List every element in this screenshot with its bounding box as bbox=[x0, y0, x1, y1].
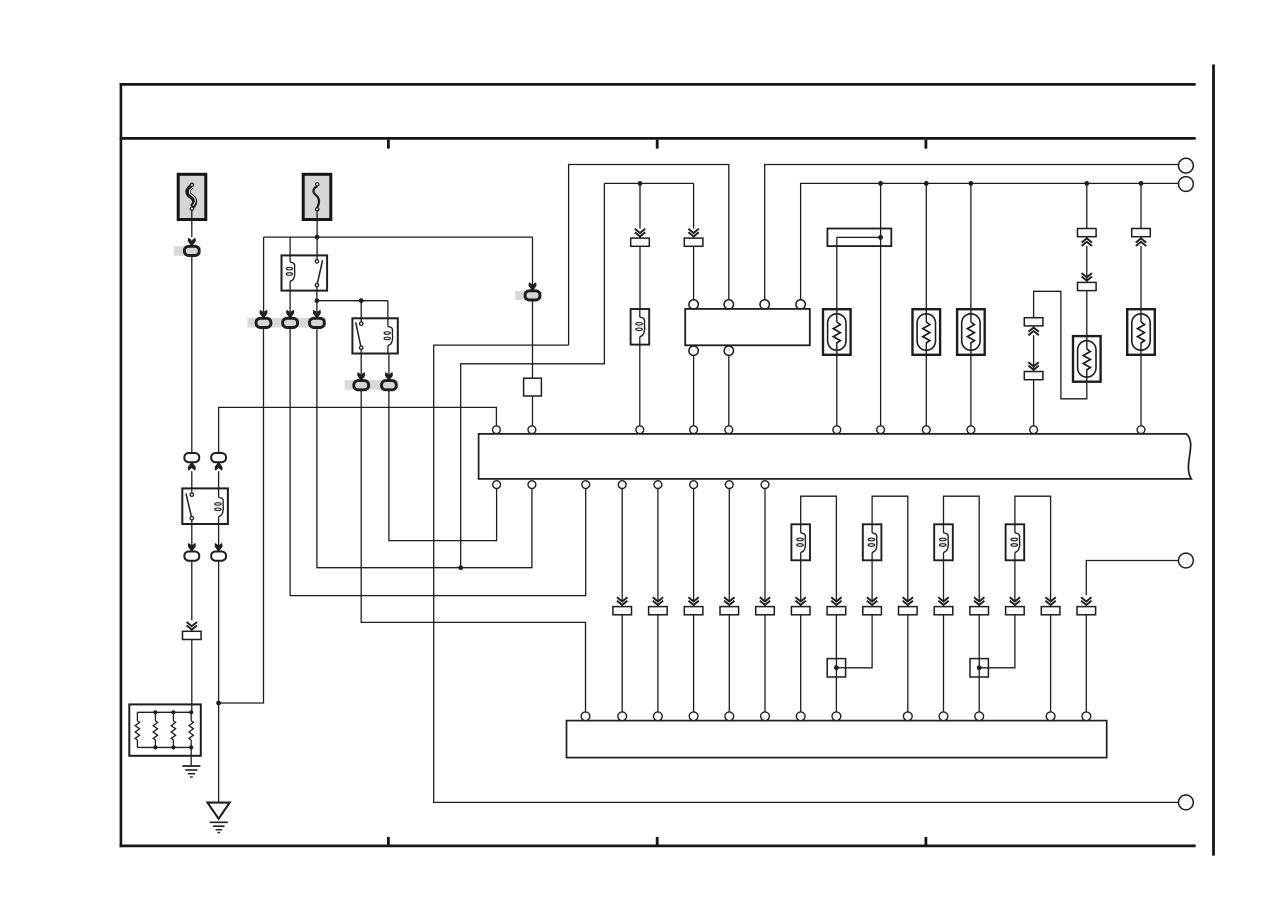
noise filter coil box bbox=[631, 309, 650, 345]
relay R2 coil bbox=[384, 327, 393, 346]
light control rheostat box bbox=[827, 229, 891, 247]
ECU bar bottom pin 2 bbox=[528, 481, 536, 489]
wire to lamp L2 bbox=[925, 183, 927, 309]
junction node at (880.6,183) bbox=[878, 181, 883, 186]
wire H1 to H2 bbox=[1086, 246, 1088, 283]
junction node at (460.7,567.7) bbox=[458, 565, 463, 570]
wire N at 800.7 to lower ECU bbox=[800, 615, 802, 713]
wire G2 to receiver bbox=[693, 246, 695, 299]
ECU bar bottom pin 7 bbox=[725, 481, 733, 489]
highlight band at connector A2 bbox=[515, 291, 542, 300]
wire to relay R3 coil from node y=407 bbox=[219, 407, 497, 452]
connector N12 (shielded pair) bbox=[1010, 601, 1020, 605]
wire to lamp L3 bbox=[970, 183, 972, 309]
connector N7 (shielded pair) bbox=[831, 601, 841, 605]
connector N2 (shielded pair) bbox=[653, 601, 663, 605]
wire H2 to lamp L4 bbox=[1086, 291, 1088, 337]
page edge rule right bbox=[1212, 65, 1215, 856]
ECU bar bottom pin 3 bbox=[582, 481, 590, 489]
wire to light control rheostat bbox=[880, 183, 882, 228]
wire bus y=237 bbox=[264, 236, 533, 238]
wire lamp L2 to ECU bbox=[925, 355, 927, 426]
wire to connector M1 bbox=[1140, 183, 1142, 228]
tick mark bottom 3 bbox=[925, 837, 928, 845]
ECU bar bottom pin 4 bbox=[618, 481, 626, 489]
wire motor 3 upper lead loop bbox=[944, 496, 980, 601]
wire N13 to lower ECU bbox=[1050, 615, 1052, 713]
tick mark top 3 bbox=[925, 140, 928, 149]
wire B2 to ECU main connector bbox=[290, 328, 586, 596]
wire run top-left segment A bbox=[569, 165, 729, 346]
fuse F1 (fusible link) box bbox=[178, 174, 206, 219]
lower ECU junction bar bbox=[567, 721, 1107, 758]
connector K1 (facing pair upper) bbox=[1024, 318, 1043, 326]
wire F1 to resistor pack bbox=[191, 640, 193, 713]
arrow up into connector D1 bbox=[188, 462, 195, 470]
wire N at 693.6 to lower ECU bbox=[693, 615, 695, 713]
arrow up into connector D2 bbox=[215, 462, 222, 470]
wire to connector H1 bbox=[1086, 183, 1088, 228]
relay R1 switch bbox=[315, 260, 318, 263]
lamp L3 bbox=[957, 309, 985, 355]
junction node at (317,237) bbox=[315, 235, 320, 240]
receiver terminal c bbox=[760, 300, 769, 309]
ECU bar top pin 8 bbox=[922, 426, 930, 434]
chassis ground symbol (resistor pack) bbox=[182, 765, 200, 767]
receiver terminal d bbox=[796, 300, 805, 309]
junction node at (218.6,703) bbox=[216, 701, 221, 706]
connector D2 oval (white) bbox=[211, 453, 226, 462]
wire bottom pin5 down bbox=[657, 489, 659, 602]
ECU bar top pin 11 bbox=[1137, 426, 1145, 434]
ECU bar bottom pin 8 bbox=[761, 481, 769, 489]
wire E2 down to ground bbox=[218, 561, 220, 803]
junction node at (1141,183) bbox=[1139, 181, 1144, 186]
wire rheostat tap to lamp L1 bbox=[836, 237, 838, 309]
connector M1 (shielded pair) bbox=[1132, 229, 1151, 237]
wire K2 to ECU bbox=[1033, 380, 1035, 426]
connector N4 (shielded pair) bbox=[724, 601, 734, 605]
wire relay R3 coil to connector E2 bbox=[218, 517, 220, 547]
connector B1 oval bbox=[256, 318, 271, 327]
receiver terminal b bbox=[724, 300, 733, 309]
wire N at 622.2 to lower ECU bbox=[621, 615, 623, 713]
connector N3 (shielded pair) bbox=[688, 601, 698, 605]
ECU bar top pin 2 bbox=[528, 426, 536, 434]
wire branch connector G1 bbox=[639, 183, 641, 228]
arrow into connector B1 bbox=[260, 310, 267, 318]
connector C2 oval bbox=[382, 381, 397, 390]
ECU bar bottom pin 6 bbox=[690, 481, 698, 489]
wire coil to ECU connector bbox=[639, 345, 641, 426]
connector N6 (shielded pair) bbox=[796, 601, 806, 605]
connector N11 (shielded pair) bbox=[974, 601, 984, 605]
border frame top rule bbox=[120, 83, 1196, 86]
lower ECU pin 13 bbox=[1082, 712, 1091, 721]
receiver terminal a bbox=[689, 300, 698, 309]
lower ECU pin 7 bbox=[796, 712, 805, 721]
wire K1 to K2 bbox=[1033, 335, 1035, 371]
wire M1 to lamp L5 bbox=[1140, 246, 1142, 309]
relay R3 switch bbox=[190, 493, 193, 496]
ECU bar top pin 3 bbox=[636, 426, 644, 434]
wire N at 765.0 to lower ECU bbox=[764, 615, 766, 713]
connector G2 (shielded pair) bbox=[688, 232, 698, 236]
lamp L4 bbox=[1073, 336, 1101, 382]
main ECU junction bar bbox=[479, 434, 1192, 479]
border frame header rule bbox=[120, 137, 1196, 140]
wire B3 to ECU main connector bbox=[317, 328, 532, 568]
wire N7 through splice S1 bbox=[835, 615, 837, 713]
wire relay R2 switch to connector C1 bbox=[360, 349, 362, 374]
wire lamp L3 to ECU bbox=[970, 355, 972, 426]
ECU bar top pin 7 bbox=[877, 426, 885, 434]
lower ECU pin 12 bbox=[1046, 712, 1055, 721]
connector H2 (facing pair lower) bbox=[1082, 277, 1092, 281]
arrow into connector B2 bbox=[287, 310, 294, 318]
connector H1 (facing pair upper) bbox=[1078, 229, 1097, 237]
lamp L5 bbox=[1127, 309, 1155, 355]
wire branch to relay R2 coil bbox=[387, 301, 389, 327]
connector A2 oval bbox=[525, 291, 540, 300]
wire run to rear terminal bbox=[434, 345, 1179, 802]
receiver terminal f bbox=[724, 346, 733, 355]
arrow into connector E2 bbox=[215, 544, 222, 552]
highlight band at connector A1 bbox=[174, 246, 201, 255]
wire connector A2 to junction block J1 bbox=[532, 300, 534, 378]
wire N11 through splice S2 bbox=[978, 615, 980, 713]
tick mark bottom 1 bbox=[387, 837, 390, 845]
tick mark top 2 bbox=[656, 140, 659, 149]
relay R3 box bbox=[182, 488, 228, 524]
wire motor 1 lower lead bbox=[800, 560, 802, 601]
relay R1 coil bbox=[286, 262, 295, 281]
connector B2 oval bbox=[283, 318, 298, 327]
junction node at (317,301) bbox=[315, 298, 320, 303]
wire branch to relay R2 switch bbox=[360, 301, 362, 322]
junction node at (361,301) bbox=[359, 298, 364, 303]
relay R2 switch bbox=[360, 322, 363, 325]
ECU bar bottom pin 5 bbox=[654, 481, 662, 489]
receiver terminal e bbox=[689, 346, 698, 355]
ECU bar top pin 9 bbox=[967, 426, 975, 434]
connector N5 (shielded pair) bbox=[760, 601, 770, 605]
relay R2 box bbox=[352, 318, 397, 353]
connector N8 (shielded pair) bbox=[867, 601, 877, 605]
fuse F2 box bbox=[303, 174, 331, 219]
wire fuse F1 to connector bbox=[191, 210, 193, 237]
connector E1 oval (white) bbox=[184, 552, 199, 561]
terminal ring T2 bbox=[1179, 177, 1194, 192]
junction node at (640,183) bbox=[638, 181, 643, 186]
connector A1 oval bbox=[184, 246, 199, 255]
wire bottom pin7 down bbox=[728, 489, 730, 602]
arrow into connector C2 bbox=[385, 373, 392, 381]
wire top feed B bbox=[765, 165, 1179, 301]
arrow into connector A2 bbox=[529, 283, 536, 291]
ECU bar top pin 6 bbox=[833, 426, 841, 434]
ECU bar bottom pin 1 bbox=[493, 481, 501, 489]
wire relay R3 switch to connector E1 bbox=[191, 520, 193, 546]
door lock motor coil 2 bbox=[863, 524, 882, 560]
wire motor 1 upper lead loop bbox=[801, 496, 837, 601]
wire receiver f to ECU bbox=[728, 355, 730, 426]
ECU bar top pin 10 bbox=[1030, 426, 1038, 434]
wire motor 2 lower lead bbox=[871, 560, 873, 601]
wire run top segment C bbox=[604, 182, 693, 184]
wire N at 657.9 to lower ECU bbox=[657, 615, 659, 713]
lower ECU pin 11 bbox=[975, 712, 984, 721]
ECU bar top pin 1 bbox=[493, 426, 501, 434]
junction node at (926.3,183) bbox=[924, 181, 929, 186]
arrow into connector C1 bbox=[358, 373, 365, 381]
wire G1 to noise filter coil bbox=[639, 246, 641, 309]
connector D1 oval (white) bbox=[184, 453, 199, 462]
door lock motor coil 1 bbox=[791, 524, 810, 560]
wire terminal T3 to connector N14 bbox=[1086, 561, 1178, 596]
tick mark bottom 2 bbox=[656, 837, 659, 845]
wire N8 into splice S1 bbox=[846, 615, 873, 668]
connector B3 oval bbox=[310, 318, 325, 327]
wire D2 to relay R3 bbox=[218, 471, 220, 497]
connector E2 oval (white) bbox=[211, 552, 226, 561]
junction node at (970.9,183) bbox=[969, 181, 974, 186]
connector N10 (shielded pair) bbox=[938, 601, 948, 605]
splice box S1 bbox=[827, 659, 845, 677]
wire relay R2 coil to connector C2 bbox=[388, 354, 390, 375]
wire N12 into splice S2 bbox=[979, 615, 1015, 668]
connector N1 (shielded pair) bbox=[617, 601, 627, 605]
terminal ring T3 bbox=[1179, 553, 1194, 568]
relay R3 coil bbox=[215, 498, 224, 517]
wire branch up from junction 460 bbox=[461, 183, 605, 567]
lower ECU pin 5 bbox=[725, 712, 734, 721]
connector N9 (shielded pair) bbox=[903, 601, 913, 605]
connector K2 (facing pair lower) bbox=[1028, 366, 1038, 370]
wire motor 3 lower lead bbox=[943, 560, 945, 601]
junction node at (1086.8,183) bbox=[1084, 181, 1089, 186]
wire motor 2 upper lead loop bbox=[872, 496, 908, 601]
wire N10 to lower ECU bbox=[943, 615, 945, 713]
wire fuse F2 down bbox=[316, 211, 318, 260]
wire resistor pack to chassis ground bbox=[190, 747, 192, 766]
arrow into connector A1 bbox=[188, 238, 195, 246]
lower ECU pin 9 bbox=[903, 712, 912, 721]
door lock motor coil 4 bbox=[1006, 524, 1025, 560]
junction block J1 square bbox=[524, 378, 542, 396]
arrow into connector E1 bbox=[188, 544, 195, 552]
arrow into connector B3 bbox=[313, 310, 320, 318]
wire B1 drop to junction bbox=[219, 328, 264, 703]
wire connector A1 to relay R3 bbox=[191, 256, 193, 453]
lower ECU pin 6 bbox=[761, 712, 770, 721]
highlight band at connector row C bbox=[345, 380, 399, 389]
terminal ring T1 bbox=[1179, 158, 1194, 173]
lower ECU pin 10 bbox=[939, 712, 948, 721]
lower ECU pin 2 bbox=[618, 712, 627, 721]
door lock motor coil 3 bbox=[934, 524, 953, 560]
splice box S2 bbox=[970, 659, 988, 677]
earth ground symbol (triangle) bbox=[208, 803, 230, 819]
lower ECU pin 3 bbox=[654, 712, 663, 721]
wire lamp L5 to ECU bbox=[1140, 355, 1142, 426]
wire bottom pin6 down bbox=[693, 489, 695, 602]
resistor pack (4 resistors) box bbox=[129, 704, 201, 755]
ECU bar top pin 5 bbox=[725, 426, 733, 434]
wire relay R1 coil to connector B2 bbox=[289, 291, 291, 313]
wire branch connector G2 bbox=[693, 183, 695, 228]
lower ECU pin 4 bbox=[689, 712, 698, 721]
wire N at 729.3 to lower ECU bbox=[728, 615, 730, 713]
wire motor 4 lower lead bbox=[1014, 560, 1016, 601]
wire bottom pin8 down bbox=[764, 489, 766, 602]
lamp L1 bbox=[823, 309, 851, 355]
wire N14 to lower ECU bbox=[1085, 615, 1087, 713]
ECU bar top pin 4 bbox=[690, 426, 698, 434]
lamp L2 bbox=[913, 309, 941, 355]
wire top feed D bbox=[801, 183, 1179, 300]
door control receiver box bbox=[685, 309, 810, 345]
wire bus y=301 to relay R2 bbox=[317, 300, 388, 302]
tick mark top 1 bbox=[387, 140, 390, 149]
border frame bottom rule bbox=[120, 845, 1196, 848]
wire receiver e to ECU bbox=[693, 355, 695, 426]
wire C2 to ECU main connector bbox=[389, 390, 497, 540]
lower ECU pin 1 bbox=[581, 712, 590, 721]
wire J1 to ECU connector bbox=[532, 396, 534, 426]
connector F1 (shielded pair) bbox=[187, 625, 197, 629]
connector N14 (shielded pair) bbox=[1081, 601, 1091, 605]
wire branch down to relay R1 coil bbox=[289, 237, 291, 262]
connector C1 oval bbox=[354, 381, 369, 390]
wire E1 to connector F1 bbox=[191, 561, 193, 620]
terminal ring T4 bbox=[1179, 795, 1194, 810]
wire lamp L4 to junction Z bbox=[1034, 291, 1087, 399]
wire relay R1 switch down bbox=[316, 287, 318, 313]
wire bus 237 corner down to B1 bbox=[263, 237, 265, 312]
wire lamp L1 to ECU bbox=[836, 355, 838, 426]
wire branch down to connector A2 bbox=[532, 237, 534, 288]
wire bottom pin4 down bbox=[621, 489, 623, 602]
wire N9 to lower ECU bbox=[907, 615, 909, 713]
border frame left rule bbox=[120, 83, 123, 847]
wire motor 4 upper lead loop bbox=[1015, 496, 1051, 601]
lower ECU pin 8 bbox=[832, 712, 841, 721]
wire rheostat through to ECU bbox=[880, 229, 882, 426]
highlight band at connector row B bbox=[247, 318, 326, 328]
connector N13 (shielded pair) bbox=[1045, 601, 1055, 605]
wire D1 to relay R3 bbox=[191, 471, 193, 494]
relay R1 box bbox=[282, 255, 328, 290]
connector G1 (shielded pair) bbox=[635, 232, 645, 236]
wire C1 to lower ECU bbox=[361, 390, 585, 712]
